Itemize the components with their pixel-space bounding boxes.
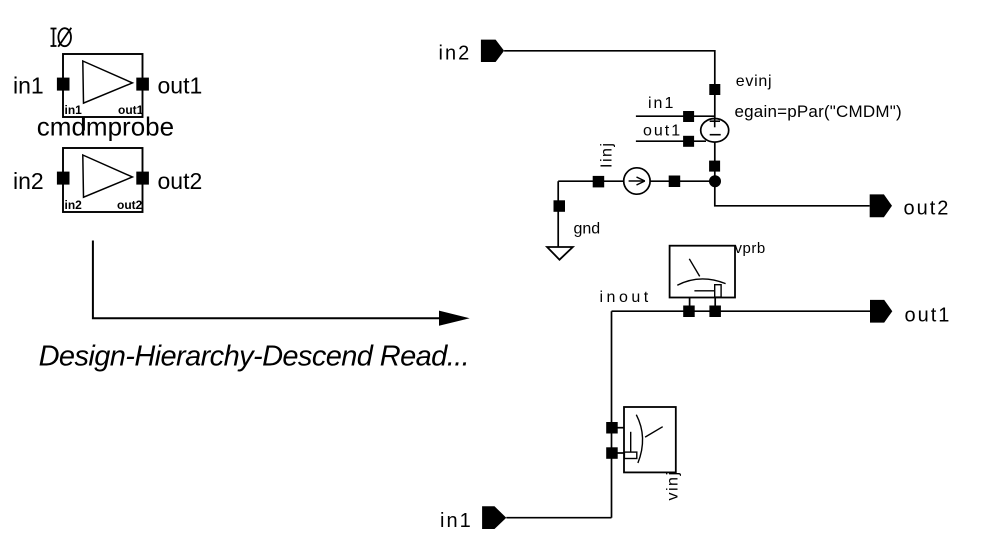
current source Iinj circle <box>624 168 650 194</box>
ground symbol <box>547 247 573 260</box>
svg-text:in2: in2 <box>13 168 44 194</box>
voltage probe vprb box <box>670 246 735 298</box>
current probe vinj (rotated meter) <box>624 407 676 472</box>
wire in1 control stub <box>636 115 715 117</box>
pin square out1 (U1) <box>136 78 149 91</box>
svg-text:vprb: vprb <box>735 240 766 257</box>
wire stub below U1 <box>83 117 85 131</box>
vprb meter flag <box>715 285 721 297</box>
svg-text:out1: out1 <box>643 123 682 140</box>
instance name I0 <box>51 28 72 47</box>
svg-text:cmdmprobe: cmdmprobe <box>37 112 174 142</box>
pin square vprb right <box>709 306 721 318</box>
vcvs minus sign <box>710 134 721 136</box>
vprb meter arc <box>677 279 725 285</box>
symbol U1 cmdmprobe body <box>63 54 143 117</box>
pin arrow out2 <box>870 194 892 217</box>
svg-text:inout: inout <box>600 289 652 306</box>
current source arrow <box>629 180 645 182</box>
wire in1 net <box>506 517 611 519</box>
wire junction to out2 <box>715 181 870 205</box>
svg-text:in1: in1 <box>648 95 675 112</box>
pin square in2 (U2) <box>57 172 70 185</box>
pin square E+ control <box>683 111 694 122</box>
svg-text:out2: out2 <box>904 198 951 220</box>
pin square gnd <box>554 200 566 212</box>
symbol U2 cmdmprobe body <box>63 148 143 212</box>
pin square evinj bottom <box>709 161 720 172</box>
wire in2 net <box>504 51 715 182</box>
pin square vinj bottom <box>606 447 618 459</box>
svg-text:Iinj: Iinj <box>599 142 616 168</box>
pin square vinj top <box>606 422 618 434</box>
vcvs plus sign <box>714 119 716 128</box>
junction dot <box>709 175 721 187</box>
symbol U2 amplifier triangle <box>83 155 133 197</box>
pin square Iinj left <box>593 176 605 188</box>
symbol U1 amplifier triangle <box>83 61 133 103</box>
pin square vprb left <box>683 306 695 318</box>
svg-text:in1: in1 <box>13 73 44 99</box>
wire inout net horizontal <box>612 310 871 312</box>
pin square out2 (U2) <box>136 172 149 185</box>
wire inout net vertical <box>611 311 613 518</box>
wire down to gnd <box>557 181 559 247</box>
svg-text:out1: out1 <box>905 305 952 327</box>
pin square evinj top <box>709 84 720 95</box>
pin arrow out1 <box>870 300 892 323</box>
pin square E- control <box>683 136 694 147</box>
wire out1 control stub <box>636 140 706 142</box>
vcvs source evinj circle <box>701 119 729 143</box>
svg-text:out2: out2 <box>158 168 203 194</box>
svg-text:in2: in2 <box>65 198 83 212</box>
pin square in1 (U1) <box>57 78 70 91</box>
svg-text:evinj: evinj <box>736 73 772 90</box>
svg-text:gnd: gnd <box>574 221 601 238</box>
wire left of current source <box>558 180 624 182</box>
svg-text:Design-Hierarchy-Descend Read.: Design-Hierarchy-Descend Read... <box>39 341 469 373</box>
svg-text:in1: in1 <box>440 510 473 532</box>
vprb meter needle <box>689 259 699 277</box>
descend arrow wire <box>93 241 441 319</box>
svg-text:in2: in2 <box>439 43 472 65</box>
vprb pin stubs <box>689 298 691 307</box>
svg-text:vinj: vinj <box>665 470 682 500</box>
pin arrow in2 <box>481 40 504 62</box>
vprb meter tick <box>694 290 714 292</box>
pin square Iinj right <box>669 176 681 188</box>
svg-text:egain=pPar("CMDM"): egain=pPar("CMDM") <box>735 102 902 121</box>
vinj pin stubs <box>617 427 625 429</box>
svg-text:out1: out1 <box>158 73 203 99</box>
descend arrow head <box>439 311 470 326</box>
wire right of current source <box>650 180 715 182</box>
pin arrow in1 <box>482 506 506 529</box>
svg-text:out2: out2 <box>117 198 143 212</box>
